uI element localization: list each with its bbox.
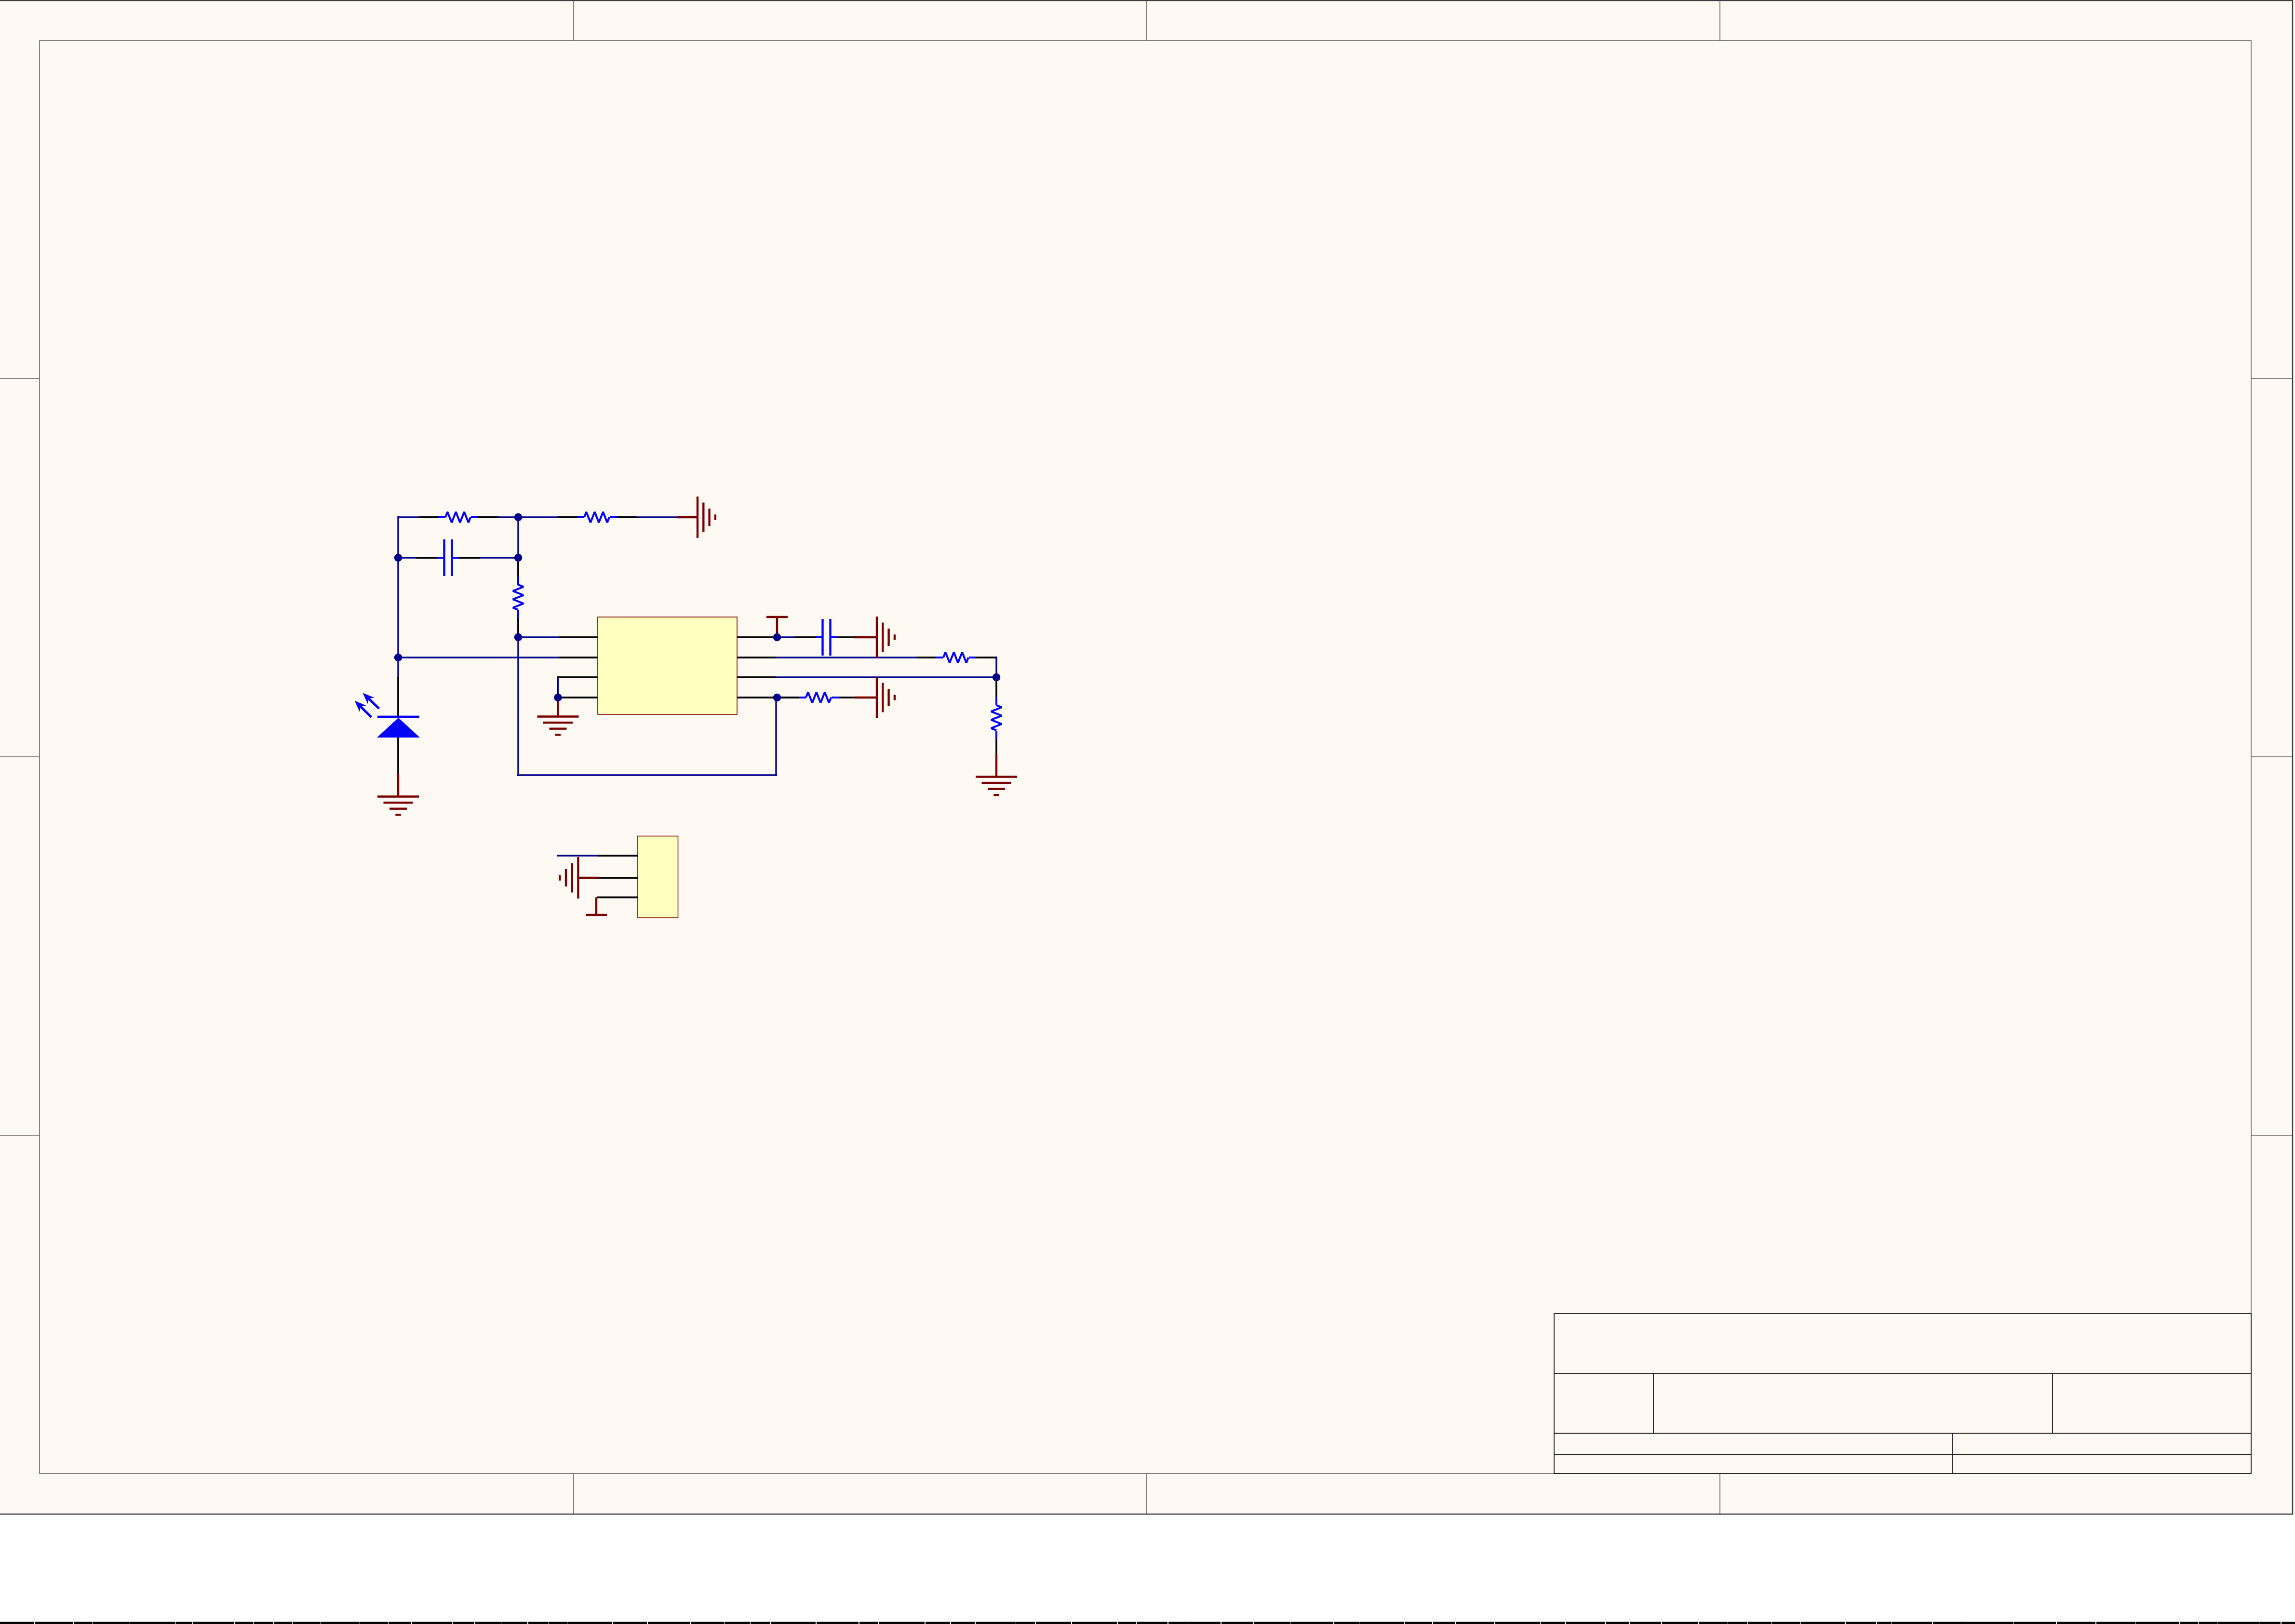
U1 pin 2 left	[559, 657, 598, 658]
right border zone tick 1	[2251, 378, 2293, 379]
capacitor C1	[416, 539, 480, 576]
U2 pin C	[597, 897, 638, 899]
wire capacitor C1 row	[398, 557, 518, 558]
top border zone tick 3	[1719, 0, 1720, 40]
top border zone tick 1	[573, 0, 574, 40]
IC U1	[598, 617, 737, 714]
IC U2	[638, 836, 678, 918]
wire feedback rise to pin4	[775, 697, 777, 775]
U2 pin A	[598, 855, 638, 857]
U1 pin 4 right	[737, 697, 773, 698]
resistor R1	[419, 512, 498, 523]
left border zone tick 3	[0, 1135, 40, 1136]
wire pin2 right long run	[776, 657, 918, 658]
power port VCC bar	[766, 617, 788, 635]
LED D1 cathode bar	[377, 716, 419, 718]
U1 pin 4 right continuation	[781, 697, 800, 698]
title block row line 3	[1554, 1454, 2251, 1455]
right border zone tick 2	[2251, 756, 2293, 757]
bottom screen edge sliver	[0, 1622, 2295, 1624]
junction node U1 ground left	[554, 694, 562, 701]
junction node pin4 right	[773, 694, 781, 701]
title block column divider B	[2052, 1373, 2053, 1434]
power port bar at U2 pin C	[586, 898, 607, 915]
junction node pin1 left	[514, 633, 522, 641]
ground stem at R2 net	[677, 516, 698, 518]
junction node top	[514, 513, 522, 521]
title block row line 1	[1554, 1373, 2251, 1374]
junction node C1 right	[514, 554, 522, 562]
ground stem at C2	[855, 636, 877, 638]
U1 pin 2 right	[737, 657, 776, 658]
junction node pin2 left	[394, 654, 402, 661]
wire U2 pin A stub	[557, 855, 599, 856]
LED D1 body	[377, 718, 420, 738]
wire pin2 row left	[398, 657, 559, 658]
U2 pin B	[598, 877, 638, 879]
sheet right edge	[2292, 0, 2294, 1515]
resistor R6	[991, 680, 1002, 757]
resistor R4	[780, 692, 859, 703]
ground stem at U2 pin B	[578, 877, 599, 879]
junction node R5 output	[993, 673, 1000, 681]
LED D1 bottom pin	[397, 738, 399, 775]
wire top net (node A to ground branch)	[398, 516, 678, 518]
ground stem at R6	[995, 754, 997, 777]
wire pin1 right to C2	[777, 636, 795, 638]
power ground G4	[377, 797, 419, 815]
wire R5 output corner	[995, 657, 997, 678]
sheet bottom edge	[0, 1514, 2293, 1515]
power ground G7	[560, 857, 578, 899]
bottom border zone tick 3	[1719, 1474, 1720, 1514]
power ground G2	[877, 617, 895, 658]
U1 pin 4 left	[559, 697, 598, 698]
LED D1 top pin	[397, 677, 399, 717]
wire pin3 right long run	[776, 676, 996, 678]
title block column divider C	[1952, 1434, 1953, 1474]
U1 pin 3 right	[737, 676, 776, 678]
bottom border zone tick 2	[1146, 1474, 1147, 1514]
LED D1 emission arrow 2	[355, 701, 372, 717]
wire left vertical net	[397, 516, 399, 678]
resistor R3	[513, 559, 523, 637]
LED D1 emission arrow 1	[363, 693, 379, 709]
ground stem at U1 left	[557, 698, 559, 717]
left border zone tick 2	[0, 756, 40, 757]
wire pin1 left stub	[518, 636, 560, 638]
sheet top edge	[0, 0, 2293, 1]
resistor R5	[917, 652, 996, 663]
U1 pin 3 left	[558, 676, 598, 678]
U1 pin 1 right	[737, 636, 773, 638]
right border zone tick 3	[2251, 1135, 2293, 1136]
ground stem at LED	[397, 774, 399, 797]
junction node C1 left	[394, 554, 402, 562]
title block row line 2	[1554, 1433, 2251, 1434]
junction node pin1 right	[773, 633, 781, 641]
power ground G1	[698, 497, 715, 538]
U1 pin 1 left	[559, 636, 598, 638]
ground stem at R4	[855, 697, 877, 698]
wire R3 vertical net	[517, 517, 519, 776]
top border zone tick 2	[1146, 0, 1147, 40]
wire bottom feedback run	[517, 774, 777, 776]
left border zone tick 1	[0, 378, 40, 379]
power ground G3	[877, 677, 895, 718]
title block outline	[1554, 1314, 2251, 1474]
wire pin3 left corner	[557, 676, 559, 698]
power ground G6	[537, 717, 579, 735]
power ground G5	[976, 777, 1017, 795]
resistor R2	[558, 512, 637, 523]
capacitor C2	[795, 619, 859, 656]
bottom border zone tick 1	[573, 1474, 574, 1514]
title block column divider A	[1653, 1373, 1654, 1434]
